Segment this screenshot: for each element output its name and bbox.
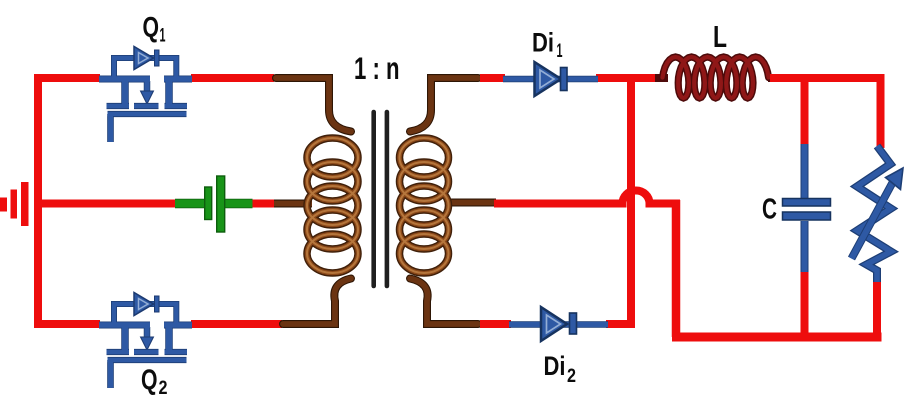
Q2 gate lead [108, 360, 113, 388]
wire: middle rail Vin to battery [34, 200, 176, 208]
Q2 body-diode loop [114, 304, 176, 324]
svg-text:L: L [713, 19, 727, 54]
svg-text:Di: Di [544, 351, 566, 381]
transformer T1 primary lead bottom [283, 279, 351, 325]
wire: rectifier junction vertical [627, 78, 635, 324]
Q1 gate bar [108, 112, 187, 117]
svg-text:Q: Q [143, 12, 160, 44]
load arrow [852, 178, 896, 259]
Q1 channel bars [107, 104, 130, 109]
MOSFET Q1 outline layer [99, 58, 192, 142]
capacitor/battery Cin (green) [175, 176, 253, 232]
svg-text:2: 2 [567, 366, 576, 387]
transformer T1 core [371, 112, 376, 286]
Q2 body diode [134, 293, 154, 316]
transformer T1 secondary lead bottom [410, 279, 478, 325]
wire: Di1 to junction and L [596, 74, 665, 82]
inductor L [655, 57, 781, 98]
svg-text:1 : n: 1 : n [354, 50, 400, 86]
wire: top rail left (Vin to Q1) [34, 74, 100, 82]
wire: C branch bottom red [801, 270, 809, 341]
Q1 body diode [134, 47, 154, 70]
Q2 body arrow [145, 327, 150, 337]
transformer T1 primary center tap [274, 200, 312, 208]
transformer T1 secondary lead top [410, 78, 478, 132]
wire: bottom rail Q2 to transformer [191, 320, 282, 328]
Q1 drain lead [99, 76, 150, 82]
wire: middle rail battery to transformer [252, 200, 276, 208]
MOSFET Q2 outline layer [99, 304, 192, 388]
svg-text:Q: Q [141, 365, 158, 397]
wire: top rail Q1 to transformer [191, 74, 274, 82]
Q2 left leg [122, 326, 128, 350]
svg-text:2: 2 [159, 378, 168, 399]
wire: secondary top to Di1 [480, 74, 505, 82]
Q2 drain lead [99, 322, 150, 328]
wire: output return down leg [672, 200, 681, 337]
load RL variable resistor zigzag [852, 146, 904, 282]
Q2 channel bars [107, 350, 130, 355]
wire: load branch top red [877, 78, 885, 148]
Q2 gate bar [108, 358, 187, 363]
diode Di2 [509, 307, 608, 341]
Q1 right leg [166, 80, 172, 104]
wire: load branch bottom red [873, 280, 881, 341]
svg-text:Di: Di [532, 28, 554, 58]
transformer T1 secondary winding [400, 138, 449, 273]
transformer T1 primary winding [307, 138, 358, 273]
wire: center tap run with hop over junction [494, 191, 680, 204]
MOSFET Q2 [99, 293, 192, 389]
wire: Di2 to junction corner [606, 320, 635, 328]
wire: C branch top red [801, 78, 809, 146]
Q1 source lead [164, 76, 192, 82]
Q1 body arrow [145, 81, 150, 91]
svg-text:1: 1 [557, 41, 563, 62]
MOSFET Q1 [99, 47, 192, 143]
wire: bottom output rail [672, 333, 882, 342]
Q2 source lead [164, 322, 192, 328]
svg-text:1: 1 [160, 26, 166, 47]
transformer T1 secondary center tap [450, 199, 496, 207]
Q1 body-diode loop [114, 58, 176, 78]
capacitor C [783, 144, 831, 272]
Q2 right leg [166, 326, 172, 350]
Q1 left leg [122, 80, 128, 104]
wire: secondary bottom to Di2 [480, 320, 511, 328]
source Vin bars [0, 182, 29, 226]
svg-text:C: C [762, 194, 777, 226]
diode Di1 [503, 62, 598, 96]
wire: L to output corner [770, 74, 885, 82]
Q1 gate lead [108, 114, 113, 142]
wire: bottom rail left (Vin to Q2) [34, 320, 100, 328]
transformer T1 primary lead top [276, 78, 351, 132]
wire: left input vertical bus [34, 74, 42, 328]
